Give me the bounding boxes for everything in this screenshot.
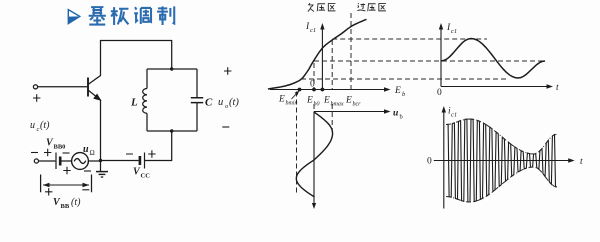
svg-text:E: E: [345, 96, 352, 106]
svg-text:(t): (t): [71, 197, 81, 208]
svg-text:u: u: [393, 109, 398, 119]
svg-text:BB0: BB0: [54, 144, 66, 151]
svg-text:t: t: [580, 157, 583, 167]
svg-text:c1: c1: [451, 112, 457, 119]
svg-text:E: E: [323, 96, 330, 106]
svg-text:u: u: [30, 120, 35, 131]
svg-text:CC: CC: [141, 173, 151, 180]
svg-text:0: 0: [427, 157, 432, 167]
svg-text:bcr: bcr: [353, 102, 362, 108]
svg-text:C: C: [205, 97, 213, 109]
svg-text:b: b: [402, 91, 406, 98]
svg-text:E: E: [278, 95, 285, 105]
svg-text:0: 0: [437, 88, 442, 98]
svg-text:c1: c1: [310, 27, 316, 34]
svg-text:Ω: Ω: [90, 149, 95, 157]
svg-text:E: E: [306, 96, 313, 106]
svg-text:(t): (t): [229, 97, 239, 108]
svg-text:L: L: [130, 97, 138, 109]
svg-text:u: u: [83, 144, 89, 155]
svg-text:b: b: [400, 114, 403, 121]
svg-text:(t): (t): [40, 120, 50, 131]
svg-text:BB: BB: [61, 203, 70, 210]
svg-text:b0: b0: [314, 102, 320, 108]
svg-text:0: 0: [310, 80, 315, 90]
svg-text:bmin: bmin: [286, 101, 298, 107]
svg-text:u: u: [218, 97, 223, 108]
svg-text:t: t: [556, 83, 559, 93]
svg-text:bmax: bmax: [331, 102, 344, 108]
svg-text:c1: c1: [451, 28, 457, 35]
svg-text:E: E: [394, 86, 401, 96]
